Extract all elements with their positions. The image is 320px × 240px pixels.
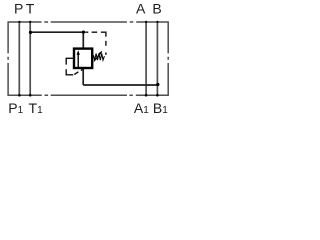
port stub node B bottom bbox=[156, 94, 159, 97]
port stub node T top bbox=[29, 21, 31, 23]
junction node on B line bbox=[156, 83, 159, 86]
port line P (vertical pass-through) bbox=[18, 22, 20, 95]
port stub node P top bbox=[18, 21, 20, 23]
svg-text:A1: A1 bbox=[134, 100, 149, 116]
svg-text:B: B bbox=[152, 1, 161, 17]
svg-text:P1: P1 bbox=[8, 100, 23, 116]
sandwich plate boundary bottom edge bbox=[8, 94, 168, 96]
sandwich plate boundary left edge bbox=[7, 21, 9, 96]
port line B (vertical pass-through) bbox=[156, 22, 158, 95]
sandwich plate boundary right edge bbox=[167, 21, 169, 96]
junction node valve top bbox=[82, 30, 85, 33]
port stub node A bottom bbox=[145, 94, 148, 97]
spring (adjustable) on valve right side bbox=[93, 54, 104, 61]
wire bottom run to B line bbox=[83, 84, 157, 86]
port stub node T bottom bbox=[29, 94, 32, 97]
port line T (vertical pass-through) bbox=[29, 22, 31, 95]
svg-text:P: P bbox=[14, 1, 23, 17]
svg-text:T: T bbox=[26, 1, 35, 17]
adjustment arrow across spring bbox=[94, 54, 100, 62]
pilot line (dashed) from valve left side to inlet bbox=[66, 58, 74, 64]
wire from T line to valve top port bbox=[30, 31, 83, 33]
port stub node A top bbox=[145, 21, 147, 23]
vent/drain line (dashed) from valve top junction to spring side bbox=[85, 31, 97, 33]
wire valve bottom port down bbox=[82, 68, 84, 85]
relief valve body (square) bbox=[74, 49, 92, 68]
wire valve top port bbox=[82, 32, 84, 48]
port line A (vertical pass-through) bbox=[145, 22, 147, 95]
junction node on T line bbox=[29, 31, 32, 34]
svg-text:T1: T1 bbox=[29, 100, 44, 116]
svg-text:B1: B1 bbox=[153, 100, 168, 116]
sandwich plate boundary (chain line) top edge bbox=[8, 21, 168, 23]
svg-text:A: A bbox=[136, 1, 146, 17]
flow arrow inside valve (closed position) bbox=[77, 54, 79, 68]
port stub node B top bbox=[156, 21, 158, 23]
port stub node P bottom bbox=[18, 94, 21, 97]
